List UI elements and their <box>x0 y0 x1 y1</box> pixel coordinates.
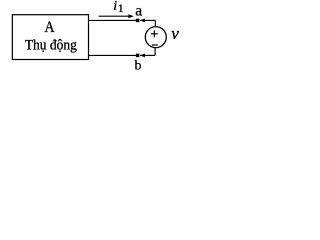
svg-text:1: 1 <box>118 1 124 15</box>
svg-text:b: b <box>135 59 142 74</box>
svg-text:v: v <box>171 24 179 43</box>
svg-text:a: a <box>135 3 142 20</box>
svg-text:i: i <box>113 0 117 14</box>
svg-text:A: A <box>45 19 55 36</box>
svg-text:Thụ động: Thụ động <box>25 37 77 54</box>
